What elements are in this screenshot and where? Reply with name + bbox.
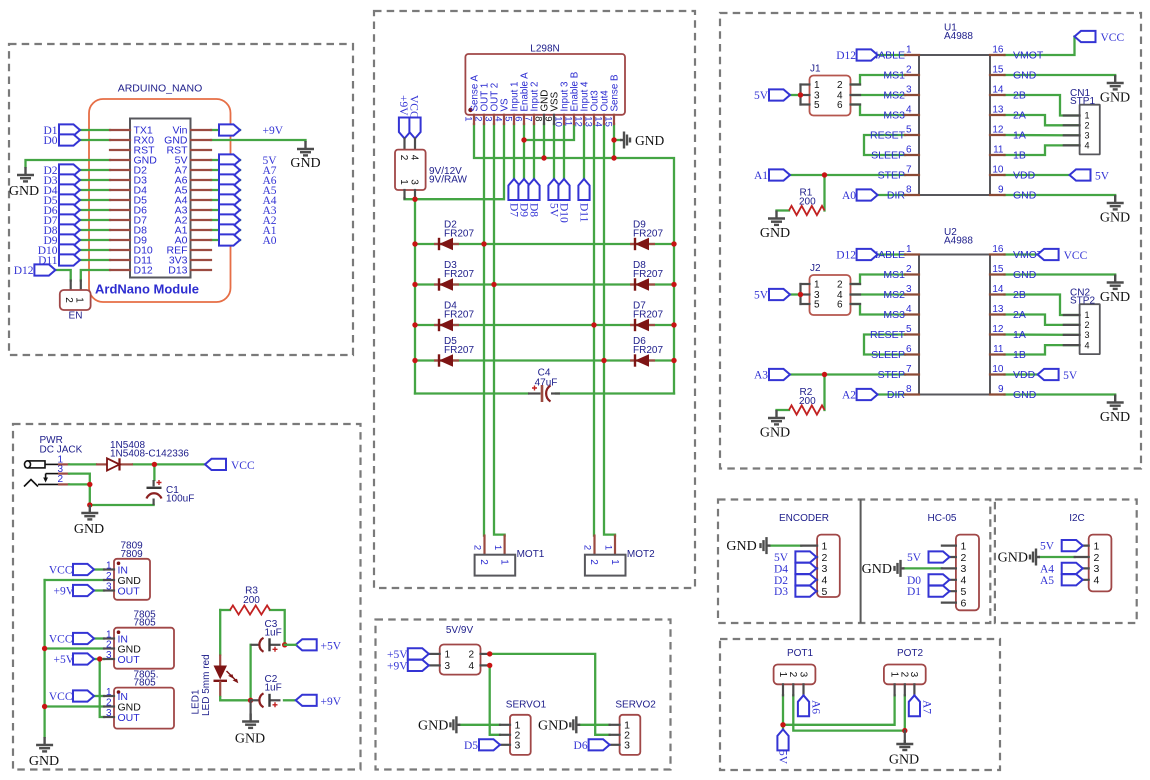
pin stub A3 (right)	[191, 209, 211, 211]
svg-text:1B: 1B	[1013, 150, 1026, 162]
svg-text:2: 2	[472, 545, 483, 550]
U2 pin 3 stub	[905, 293, 919, 295]
SERVO2 pin 1 stub	[610, 724, 620, 726]
svg-text:5: 5	[814, 300, 820, 311]
svg-text:5V: 5V	[907, 552, 922, 564]
svg-text:7: 7	[906, 364, 912, 375]
pin stub RX0 (left)	[110, 139, 130, 141]
wire D8 net	[80, 229, 110, 231]
wire sense/right bus	[474, 124, 674, 394]
flag D11 (up)	[578, 179, 589, 200]
ground symbol (arduino left)	[17, 167, 34, 181]
svg-text:GND: GND	[418, 718, 448, 733]
svg-text:5: 5	[822, 586, 828, 598]
pin stub REF (right)	[191, 249, 211, 251]
wire POT1.1 to POT2.1	[783, 695, 895, 725]
svg-text:D0: D0	[43, 135, 57, 147]
flag D1	[59, 124, 80, 135]
svg-text:D13: D13	[168, 265, 187, 277]
U1 pin 7 stub	[905, 174, 919, 176]
ground symbol (i2c)	[1030, 549, 1040, 566]
ground symbol (hc05)	[895, 560, 905, 577]
svg-text:3: 3	[908, 672, 919, 678]
connector MOT1 body	[475, 555, 516, 576]
wire pin7 to flag D8	[533, 124, 535, 179]
wire +9V to SERVO1	[490, 665, 500, 734]
wire gnd bus to 7805a	[45, 647, 104, 649]
svg-text:5V: 5V	[777, 750, 789, 765]
svg-text:STP2: STP2	[1070, 296, 1095, 307]
svg-text:13: 13	[992, 304, 1004, 315]
svg-text:1: 1	[961, 540, 967, 552]
svg-text:12: 12	[992, 125, 1004, 136]
wire bottom rail left	[415, 392, 528, 394]
pin stub Vin (right)	[191, 129, 211, 131]
L298N pin 13 stub	[593, 115, 595, 124]
U1 pin 3 stub	[905, 94, 919, 96]
svg-text:VCC: VCC	[1101, 32, 1125, 44]
svg-text:D12: D12	[836, 250, 856, 262]
svg-text:5: 5	[961, 586, 967, 598]
svg-text:3: 3	[906, 85, 912, 96]
U_7809 pin1 mark	[117, 562, 121, 566]
wire A1 net	[211, 229, 240, 231]
ground symbol (regulators)	[36, 737, 53, 751]
connector 5V/9V body	[440, 645, 481, 675]
svg-text:1: 1	[814, 80, 820, 91]
svg-text:2: 2	[1085, 320, 1090, 330]
L298N pin 10 stub	[563, 115, 565, 124]
wire enable A-B	[524, 124, 574, 140]
svg-text:2: 2	[478, 559, 489, 565]
svg-text:A4988: A4988	[944, 236, 973, 247]
svg-text:6: 6	[906, 145, 912, 156]
flag A3	[769, 369, 790, 380]
U1 pin 10 stub	[990, 174, 1005, 176]
svg-text:ArdNano Module: ArdNano Module	[95, 282, 199, 297]
wire D4 net	[80, 189, 110, 191]
hc05 pin 3 stub	[942, 567, 956, 569]
wire D6 net	[80, 209, 110, 211]
pin stub 3V3 (right)	[191, 259, 211, 261]
flag VCC (U1)	[1075, 31, 1096, 42]
U1 pin 15 stub	[990, 74, 1005, 76]
pin stub RST (right)	[191, 149, 211, 151]
flag D1 (hc05)	[929, 586, 950, 597]
svg-text:2: 2	[398, 155, 409, 161]
svg-text:FR207: FR207	[444, 229, 474, 240]
MOT1 pin1 stub	[504, 536, 506, 555]
hc05 pin 6 stub	[942, 601, 956, 603]
diode D7 FR207	[630, 319, 655, 331]
svg-text:VDD: VDD	[1013, 369, 1036, 381]
wire A3 to STEP	[790, 373, 905, 375]
svg-text:6: 6	[961, 597, 967, 609]
wire R to gnd	[777, 409, 790, 411]
9V/12V pin1 stub	[403, 190, 405, 199]
svg-text:MS1: MS1	[883, 70, 905, 82]
svg-text:3: 3	[483, 116, 494, 121]
svg-text:1uF: 1uF	[265, 628, 282, 639]
flag 5V	[219, 154, 240, 165]
svg-text:GND: GND	[760, 426, 790, 441]
U_7805b pin 2 stub	[104, 705, 114, 707]
svg-text:GND: GND	[1013, 389, 1037, 401]
svg-text:1: 1	[906, 45, 912, 56]
svg-text:6: 6	[837, 300, 843, 311]
ground symbol (pot)	[896, 740, 913, 750]
ground symbol (power jack)	[81, 505, 98, 519]
encoder pin 3 stub	[801, 567, 817, 569]
svg-text:GND: GND	[862, 562, 892, 577]
svg-text:2B: 2B	[1013, 289, 1026, 301]
wire gnd bus to 7809	[45, 579, 104, 581]
svg-text:1: 1	[777, 672, 788, 678]
svg-text:POT1: POT1	[787, 648, 814, 659]
wire D3 net	[80, 179, 110, 181]
U1 pin 9 stub	[990, 194, 1005, 196]
encoder pin 1 stub	[801, 544, 817, 546]
svg-text:1: 1	[888, 672, 899, 678]
svg-text:11: 11	[993, 145, 1004, 156]
connector SERVO2 body	[620, 715, 641, 755]
U2 pin 7 stub	[905, 373, 919, 375]
U1 pin 12 stub	[990, 134, 1005, 136]
5V/9V right stub y665.4	[481, 664, 490, 666]
svg-text:DIR: DIR	[887, 389, 906, 401]
svg-text:1: 1	[906, 244, 912, 255]
flag D3	[59, 174, 80, 185]
wire 5V flag to J2	[790, 293, 801, 295]
svg-text:+5V: +5V	[53, 654, 74, 666]
wire POT1.1 down	[782, 695, 784, 725]
MOT1 pin2 stub	[483, 536, 485, 555]
wire D2 net	[80, 169, 110, 171]
U_7805a pin 3 stub	[104, 658, 114, 660]
encoder pin 4 stub	[801, 579, 817, 581]
wire GND15 U2	[1005, 275, 1116, 276]
U1 pin 14 stub	[990, 94, 1005, 96]
junction STEP U1	[822, 172, 827, 177]
flag A0	[219, 234, 240, 245]
CN2 pin 1 stub	[1064, 314, 1080, 316]
flag D11	[59, 254, 80, 265]
svg-text:FR207: FR207	[633, 345, 663, 356]
svg-text:3: 3	[1094, 563, 1100, 575]
junction pot gnd	[902, 728, 907, 733]
hc05 pin 5 stub	[942, 590, 956, 592]
connector POT1 body	[774, 665, 816, 685]
svg-text:3: 3	[445, 661, 451, 672]
svg-text:OUT: OUT	[118, 585, 141, 597]
hc05 pin 2 stub	[942, 556, 956, 558]
svg-text:D6: D6	[574, 740, 588, 752]
wire pin12 to flag D11	[583, 124, 585, 179]
SERVO1 pin 1 stub	[500, 724, 510, 726]
L298N pin 6 stub	[523, 115, 525, 124]
L298N pin 7 stub	[533, 115, 535, 124]
svg-text:FR207: FR207	[633, 310, 663, 321]
svg-text:7: 7	[523, 116, 534, 121]
flag +5V (servo)	[408, 648, 429, 659]
power section frame	[13, 424, 361, 770]
wire jack to diode	[69, 463, 96, 465]
hc05 pin 4 stub	[942, 579, 956, 581]
svg-text:3: 3	[961, 563, 967, 575]
jack pin3 stub	[59, 473, 69, 475]
wire jack pin3 down	[69, 474, 90, 485]
svg-text:6: 6	[513, 116, 524, 121]
connector MOT2 body	[585, 555, 626, 576]
J2 left pins tie	[799, 284, 801, 304]
flag D12	[34, 264, 55, 275]
wire GND9 U2	[1005, 395, 1116, 396]
POT1 pin 1 stub	[782, 684, 784, 695]
svg-text:VCC: VCC	[408, 95, 420, 119]
svg-text:5V: 5V	[1063, 370, 1078, 382]
L298N pin 2 stub	[483, 115, 485, 124]
wire 5V flag to J1	[790, 94, 801, 96]
CN1 pin 2 stub	[1064, 124, 1080, 126]
wire 7805a OUT to +5V	[94, 658, 104, 660]
wire jack pin2	[69, 483, 90, 485]
svg-text:MOT2: MOT2	[627, 549, 655, 560]
svg-text:6: 6	[837, 100, 843, 111]
flag VCC (power)	[205, 459, 226, 470]
J2 pin 4 stub	[851, 293, 861, 295]
flag D12 (U1)	[857, 49, 878, 60]
svg-text:1: 1	[1085, 310, 1090, 320]
svg-text:12: 12	[992, 324, 1004, 335]
junction left bus y360.5	[412, 358, 417, 363]
ground symbol (R2)	[768, 410, 785, 424]
U_7809 pin 2 stub	[104, 579, 114, 581]
connector PWR dc jack symbol	[24, 461, 59, 487]
ArdNano module outline	[89, 99, 231, 302]
svg-text:L298N: L298N	[530, 44, 559, 55]
connector CN2 body	[1080, 304, 1100, 354]
svg-text:MOT1: MOT1	[517, 549, 545, 560]
J1 pin 5 stub	[801, 103, 810, 105]
U2 pin 8 stub	[905, 393, 919, 395]
wire 2A to CN1.2	[1005, 115, 1080, 125]
connector CN1 body	[1080, 105, 1100, 155]
svg-text:+9V: +9V	[53, 586, 74, 598]
resistor R1 200	[789, 206, 825, 215]
svg-text:1: 1	[1085, 111, 1090, 121]
U2 pin 5 stub	[905, 333, 919, 335]
wire senseB drop	[613, 124, 615, 158]
wire +9V net	[211, 129, 240, 131]
svg-text:8: 8	[906, 384, 912, 395]
wire 1A to CN1.3	[1005, 134, 1080, 137]
svg-text:9: 9	[998, 185, 1004, 196]
svg-text:16: 16	[992, 244, 1004, 255]
flag D6	[589, 739, 610, 750]
svg-text:2: 2	[1085, 121, 1090, 131]
svg-text:J2: J2	[810, 263, 821, 274]
junction OUT2 row2	[491, 282, 496, 287]
connector 9V/12V body	[395, 150, 426, 190]
flag D2 (encoder)	[795, 574, 816, 585]
svg-text:3: 3	[822, 563, 828, 575]
svg-text:3: 3	[1085, 131, 1090, 141]
L298N section frame	[374, 11, 695, 588]
svg-text:RESET: RESET	[870, 130, 906, 142]
svg-text:5V: 5V	[754, 90, 769, 102]
svg-text:1: 1	[603, 545, 614, 550]
wire VCC to 7805a IN	[94, 637, 104, 639]
svg-text:GND: GND	[1013, 190, 1037, 202]
connector SERVO1 body	[510, 715, 531, 755]
svg-text:A7: A7	[920, 700, 932, 714]
junction right bus y244	[671, 241, 676, 246]
svg-text:200: 200	[243, 595, 260, 606]
svg-text:2: 2	[106, 571, 112, 582]
svg-text:13: 13	[992, 105, 1004, 116]
svg-text:1: 1	[814, 280, 820, 291]
junction senseB bus	[611, 155, 616, 160]
svg-text:13: 13	[583, 116, 594, 127]
wire D7 net	[80, 219, 110, 221]
svg-text:15: 15	[603, 116, 614, 127]
U2 pin 6 stub	[905, 353, 919, 355]
svg-text:LED1: LED1	[191, 689, 202, 714]
svg-text:2: 2	[906, 264, 912, 275]
flag D0	[59, 134, 80, 145]
svg-text:MS2: MS2	[883, 90, 905, 102]
svg-text:14: 14	[992, 284, 1004, 295]
ground symbol (SERVO2)	[570, 716, 580, 733]
wire gnd to hc05	[905, 567, 942, 569]
svg-text:1A: 1A	[1013, 329, 1026, 341]
wire to +9V flag	[284, 699, 296, 701]
wire GND15 U1	[1005, 75, 1116, 76]
svg-text:VCC: VCC	[49, 691, 73, 703]
flag D4 (encoder)	[795, 563, 816, 574]
pin stub D10 (left)	[110, 249, 130, 251]
svg-text:4: 4	[409, 155, 420, 161]
flag A1	[769, 169, 790, 180]
svg-text:A0: A0	[263, 235, 277, 247]
wire A0 to DIR	[878, 194, 905, 196]
wire A7 net	[211, 169, 240, 171]
svg-text:VMOT: VMOT	[1013, 50, 1044, 62]
svg-text:D12: D12	[14, 265, 34, 277]
wire STEP to R	[823, 375, 825, 411]
svg-text:14: 14	[593, 116, 604, 127]
svg-text:MS3: MS3	[883, 309, 905, 321]
IC U1 A4988 body	[919, 55, 990, 195]
svg-text:STEP: STEP	[878, 170, 905, 182]
junction 9V bus top	[412, 197, 417, 202]
ground symbol (U2 pin9)	[1107, 395, 1124, 409]
i2c pin 2 stub	[1075, 556, 1089, 558]
svg-text:2: 2	[473, 116, 484, 121]
pin stub D13 (right)	[191, 269, 211, 271]
U_7805b pin 3 stub	[104, 716, 114, 718]
svg-text:SLEEP: SLEEP	[871, 349, 905, 361]
junction Out3 row3	[591, 322, 596, 327]
svg-text:D0: D0	[907, 575, 921, 587]
flag A6	[219, 174, 240, 185]
L298N pin 1 stub	[473, 115, 475, 124]
wire Out4 to MOT2	[604, 124, 615, 536]
flag D3 (encoder)	[795, 586, 816, 597]
wire R3 to LED	[219, 610, 221, 655]
regulator U_7809 body	[114, 559, 150, 600]
wire 9V left bus	[414, 198, 416, 394]
wire gnd to SERVO2	[580, 724, 609, 726]
svg-text:1N5408-C142336: 1N5408-C142336	[110, 449, 189, 460]
connector HC-05 body	[956, 535, 979, 611]
flag A7	[909, 695, 920, 716]
wire A0 net	[211, 239, 240, 241]
diode D5 FR207	[434, 354, 459, 366]
flag D5	[59, 194, 80, 205]
svg-text:VCC: VCC	[231, 460, 255, 472]
5V/9V left stub y665.4	[429, 664, 440, 666]
svg-text:SERVO1: SERVO1	[506, 700, 547, 711]
wire A2 net	[211, 219, 240, 221]
pin stub D2 (left)	[110, 169, 130, 171]
U1 pin 11 stub	[990, 154, 1005, 156]
svg-text:D4: D4	[774, 563, 788, 575]
svg-text:47uF: 47uF	[535, 378, 558, 389]
U2 pin 2 stub	[905, 273, 919, 275]
flag 5V (J2)	[769, 289, 790, 300]
encoder pin 5 stub	[801, 590, 817, 592]
svg-text:2: 2	[106, 698, 112, 709]
wire A2 to DIR	[878, 393, 905, 395]
svg-text:A6: A6	[810, 700, 822, 714]
svg-text:A2: A2	[842, 390, 856, 402]
wire VDD to 5V U2	[1005, 373, 1038, 375]
wire VCC to C1	[153, 464, 155, 480]
junction left bus y284.5	[412, 282, 417, 287]
junction VCC/C1	[152, 462, 157, 467]
svg-text:10: 10	[553, 116, 564, 127]
svg-text:11: 11	[563, 116, 574, 126]
wire R to gnd	[777, 209, 790, 211]
wire 7809 OUT to +9V	[94, 589, 104, 591]
J2 pin 3 stub	[801, 293, 810, 295]
CN2 pin 3 stub	[1064, 334, 1080, 336]
wire pin5 to flag D7	[513, 124, 515, 179]
svg-text:GND: GND	[1013, 70, 1037, 82]
svg-text:11: 11	[993, 344, 1004, 355]
svg-text:D5: D5	[464, 740, 478, 752]
svg-text:GND: GND	[1100, 91, 1130, 106]
connector I2C body	[1089, 535, 1112, 592]
MOT2 pin2 stub	[593, 536, 595, 555]
wire D12 to U1 ENABLE	[878, 54, 905, 56]
5V/9V left stub y653.9	[429, 653, 440, 655]
svg-text:4: 4	[1094, 575, 1100, 587]
EN pin 1 stub	[80, 281, 82, 291]
CN2 pin 2 stub	[1064, 324, 1080, 326]
junction J1 5V	[798, 92, 803, 97]
junction gnd pin8	[541, 155, 546, 160]
svg-text:2: 2	[588, 559, 599, 565]
svg-text:GND: GND	[235, 732, 265, 747]
svg-text:2: 2	[63, 297, 74, 303]
svg-text:1: 1	[74, 297, 85, 303]
J1 pin 3 stub	[801, 94, 810, 96]
pin stub TX1 (left)	[110, 129, 130, 131]
svg-text:+9V: +9V	[387, 661, 408, 673]
flag +9V (servo)	[408, 660, 429, 671]
